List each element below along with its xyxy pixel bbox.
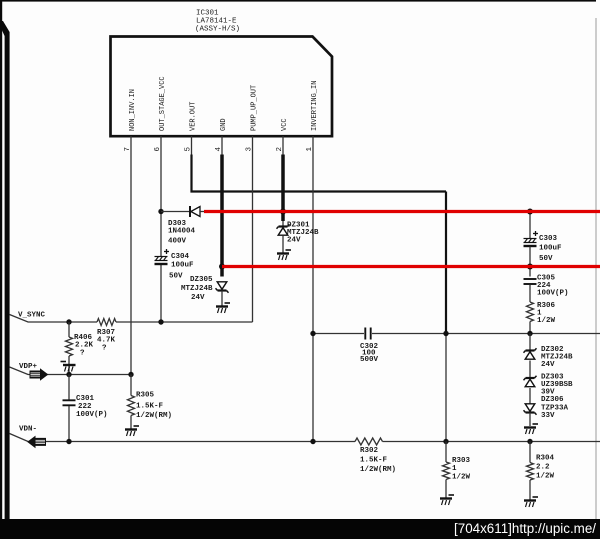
pin name GND [220, 118, 228, 131]
svg-text:1.5K-F: 1.5K-F [136, 403, 164, 411]
label R305 1.5K-F 1/2W(RM) [136, 392, 172, 421]
wire right column red1 to C303 [529, 212, 531, 239]
node VDN- entry wire with R302 in series [10, 434, 356, 442]
wire red bus 2 from pin4 to right edge [222, 265, 600, 268]
svg-text:24V: 24V [287, 237, 301, 245]
svg-text:1/2W(RM): 1/2W(RM) [136, 412, 172, 420]
svg-text:(ASSY-H/S): (ASSY-H/S) [195, 26, 240, 34]
pin number 7 [124, 147, 132, 152]
wire pin2 node to DZ301 [282, 221, 284, 227]
svg-text:1/2W: 1/2W [537, 317, 556, 325]
svg-text:100uF: 100uF [171, 262, 194, 270]
label R306 1 1/2W [537, 302, 556, 325]
svg-text:1/2W: 1/2W [452, 474, 471, 482]
svg-text:?: ? [80, 350, 85, 358]
node junction VDP+ / pin7 / R305 [128, 372, 133, 377]
svg-text:50V: 50V [539, 255, 553, 263]
node junction pin1 / C302 line [310, 331, 315, 336]
resistor R307 [97, 319, 116, 326]
svg-text:VDN-: VDN- [19, 426, 37, 434]
svg-text:33V: 33V [541, 412, 555, 420]
label VDP+ [19, 363, 38, 371]
capacitor C305 [524, 279, 537, 284]
pin number 6 [154, 147, 162, 152]
svg-text:100V(P): 100V(P) [537, 290, 569, 298]
wire pin3 PUMP_UP_OUT down to V_SYNC corner [252, 136, 254, 322]
wire pin2 VCC stub [282, 136, 284, 155]
svg-text:222: 222 [78, 403, 92, 411]
svg-text:C301: C301 [76, 395, 95, 403]
wire pin6 below C304 to V_SYNC node [160, 264, 162, 322]
svg-text:R303: R303 [452, 457, 471, 465]
svg-text:VER.OUT: VER.OUT [189, 102, 197, 131]
svg-text:1.5K-F: 1.5K-F [360, 457, 388, 465]
node junction VDN- / C301 [66, 439, 71, 444]
label C302 100 500V [360, 343, 379, 364]
svg-text:[704x611]http://upic.me/: [704x611]http://upic.me/ [454, 521, 596, 536]
svg-text:1/2W(RM): 1/2W(RM) [360, 466, 396, 474]
svg-text:DZ305: DZ305 [190, 276, 213, 284]
node junction mid vertical / C302 line [443, 331, 448, 336]
node junction VDN- / R304 [527, 439, 532, 444]
capacitor C304 electrolytic [155, 249, 170, 264]
label IC301 title [195, 10, 240, 34]
label C301 222 100V(P) [76, 395, 108, 419]
pin name INVERTING_IN [311, 81, 319, 131]
zener diode DZ302 [524, 334, 537, 360]
svg-text:OUT_STAGE_VCC: OUT_STAGE_VCC [159, 76, 167, 131]
svg-text:C303: C303 [539, 235, 558, 243]
capacitor C301 [63, 375, 76, 442]
label DZ302 MTZJ24B 24V [541, 346, 573, 369]
pin name PUMP_UP_OUT [250, 85, 258, 131]
wire mid vertical down to C302 line [445, 192, 447, 334]
svg-text:100uF: 100uF [539, 245, 562, 253]
svg-text:?: ? [102, 345, 107, 353]
wire mid vertical C302 line to VDN- line [445, 334, 447, 442]
node junction C303 / red bus 1 [527, 209, 533, 215]
label DZ306 TZP33A 33V [541, 396, 569, 420]
svg-text:50V: 50V [169, 273, 183, 281]
svg-text:24V: 24V [541, 361, 555, 369]
wire C303 to red2 [529, 247, 531, 267]
node junction VDP+ / C301 / R406 [66, 372, 71, 377]
svg-text:100V(P): 100V(P) [76, 411, 108, 419]
node junction V_SYNC / R406 [66, 319, 71, 324]
label D303 1N4004 400V [168, 220, 196, 246]
svg-text:GND: GND [220, 118, 228, 131]
capacitor C302 [365, 328, 370, 340]
node VDP+ entry wire [10, 367, 132, 375]
pin number 2 [276, 147, 284, 152]
svg-text:1N4004: 1N4004 [168, 228, 196, 236]
resistor R302 [355, 438, 383, 445]
label R303 1 1/2W [452, 457, 471, 482]
label R302 1.5K-F 1/2W(RM) [360, 447, 396, 474]
node junction C305 / red bus 2 [527, 264, 533, 270]
node junction VDN- / pin1 vertical [310, 439, 315, 444]
node junction V_SYNC / C304 [158, 319, 163, 324]
pin number 3 [246, 147, 254, 152]
svg-text:R302: R302 [360, 447, 379, 455]
pin name NON_INV.IN [129, 89, 137, 131]
wire pin5 VER.OUT stub [191, 136, 193, 155]
wire pin5 thick run right to mid vertical [192, 155, 447, 192]
node junction VDN- / mid vertical / R303 [443, 439, 448, 444]
pin number 5 [185, 147, 193, 152]
zener diode DZ306 [524, 388, 537, 415]
svg-text:NON_INV.IN: NON_INV.IN [129, 89, 137, 131]
wire pin1 INVERTING_IN down to C302 line [312, 136, 314, 334]
resistor R305 [128, 375, 135, 430]
svg-text:INVERTING_IN: INVERTING_IN [311, 81, 319, 131]
wire pin2 thick down to red bus node [281, 155, 285, 222]
wire C302 line left segment [313, 333, 364, 335]
pin name VER.OUT [189, 102, 197, 131]
node VDN- arrow symbol [28, 437, 46, 448]
pin name OUT_STAGE_VCC [159, 76, 167, 131]
label R406 2.2K ? [74, 334, 94, 358]
svg-text:R305: R305 [136, 392, 155, 400]
wire pin1 vertical C302 line to VDN- [312, 334, 314, 442]
diode D303 1N4004 [161, 206, 205, 217]
ground below DZ306 chain [524, 424, 538, 434]
node junction R306 / DZ302 / C302 line [527, 331, 532, 336]
zener diode DZ303 [524, 361, 537, 387]
label R307 4.7K ? [97, 329, 116, 353]
svg-text:24V: 24V [191, 294, 205, 302]
label DZ303 UZ39BSB 39V [541, 374, 573, 397]
svg-text:2.2: 2.2 [536, 464, 550, 472]
svg-text:1: 1 [452, 465, 457, 473]
wire V_SYNC line to pin3 corner [116, 321, 253, 323]
label C304 100uF 50V [169, 253, 194, 281]
pin number 1 [306, 147, 314, 152]
node junction pin2 / red bus 1 [280, 209, 286, 215]
svg-text:IC301: IC301 [196, 10, 219, 18]
wire pin7 NON_INV.IN down to VDP+ node [130, 136, 132, 375]
resistor R406 [66, 322, 73, 375]
label DZ305 MTZJ24B 24V [181, 276, 213, 302]
svg-text:V_SYNC: V_SYNC [18, 312, 46, 320]
svg-text:PUMP_UP_OUT: PUMP_UP_OUT [250, 85, 258, 131]
wire pin4 GND stub [221, 136, 223, 155]
svg-text:C304: C304 [171, 253, 190, 261]
resistor R304 [527, 442, 534, 501]
svg-text:400V: 400V [168, 238, 187, 246]
svg-text:LA78141-E: LA78141-E [196, 18, 237, 26]
node junction pin4 / red bus 2 [219, 264, 225, 270]
wire C302 line right segment to edge [372, 333, 600, 335]
pin name VCC [281, 118, 289, 131]
svg-text:MTZJ24B: MTZJ24B [181, 285, 213, 293]
svg-text:500V: 500V [360, 356, 379, 364]
svg-text:R304: R304 [536, 455, 555, 463]
svg-text:VCC: VCC [281, 118, 289, 131]
wire red2 to C305 [529, 267, 531, 277]
zener diode DZ305 [216, 282, 229, 306]
ground chassis symbol below R406 [61, 362, 76, 372]
label VDN- [19, 426, 37, 434]
ground below DZ305 [216, 303, 230, 313]
zener diode DZ301 [277, 224, 290, 253]
label R304 2.2 1/2W [536, 455, 555, 481]
svg-text:4.7K: 4.7K [97, 337, 116, 345]
label DZ301 MTZJ24B 24V [287, 222, 319, 245]
wire red bus 1 from D303 to right edge [204, 210, 600, 213]
label V_SYNC [18, 312, 46, 320]
ground below R305 [125, 426, 139, 436]
op-amp IC U IC301 LA78141-E body [111, 37, 333, 137]
wire pin6 upper segment to D303 node [160, 136, 162, 257]
svg-text:1/2W: 1/2W [536, 473, 555, 481]
resistor R303 [443, 442, 450, 499]
wire pin4 thick down to pump node and DZ305 [220, 155, 224, 277]
resistor R306 [527, 285, 534, 334]
svg-text:VDP+: VDP+ [19, 363, 38, 371]
capacitor C303 electrolytic [524, 231, 539, 246]
ground below R304 [524, 497, 538, 507]
ground below R303 [440, 495, 454, 505]
wire DZ306 to ground [529, 413, 531, 427]
ground below DZ301 [277, 250, 291, 260]
wire VDN- line right section to edge [383, 441, 600, 443]
node junction pin6 / D303 anode wire [158, 209, 163, 214]
label C305 224 100V(P) [537, 275, 569, 298]
pin number 4 [215, 147, 223, 152]
node VDP+ arrow symbol [30, 369, 48, 380]
label C303 100uF 50V [539, 235, 562, 263]
svg-text:2.2K: 2.2K [75, 342, 94, 350]
svg-text:DZ306: DZ306 [541, 396, 564, 404]
node V_SYNC entry wire with R307 in series [10, 315, 98, 323]
